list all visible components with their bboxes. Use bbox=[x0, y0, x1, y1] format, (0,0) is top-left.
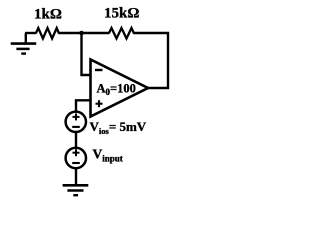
junction node A (inverting input tap) bbox=[79, 31, 84, 36]
wire (non-inverting input) bbox=[76, 100, 91, 112]
wire (Vios to Vinput) bbox=[75, 132, 77, 149]
polarity mark - bbox=[72, 162, 80, 164]
polarity mark + bbox=[73, 152, 80, 154]
svg-text:1kΩ: 1kΩ bbox=[34, 7, 62, 23]
polarity mark + bbox=[73, 116, 80, 118]
op-amp U1 bbox=[91, 60, 149, 117]
ground (left, at 1k ohm input) bbox=[11, 33, 37, 54]
svg-text:15kΩ: 15kΩ bbox=[104, 6, 139, 22]
polarity mark - bbox=[72, 126, 80, 128]
resistor 1kOhm bbox=[36, 28, 59, 39]
wire (feedback / output) bbox=[134, 33, 169, 88]
voltage source Vios bbox=[66, 112, 86, 132]
resistor 15kOhm (feedback) bbox=[109, 28, 134, 39]
wire (1k ohm to 15k ohm, through node A) bbox=[59, 32, 110, 34]
wire (inverting input) bbox=[82, 33, 91, 75]
svg-text:A0=100: A0=100 bbox=[97, 82, 136, 98]
wire (ground to 1k ohm) bbox=[25, 32, 37, 34]
source circle bbox=[66, 112, 86, 132]
non-inverting input marker (+) bbox=[96, 103, 103, 105]
ground (bottom, below Vinput) bbox=[63, 185, 89, 195]
op-amp triangle body bbox=[91, 60, 149, 117]
inverting input marker (-) bbox=[95, 69, 103, 71]
voltage source Vinput bbox=[66, 148, 86, 168]
source circle bbox=[66, 148, 86, 168]
wire (Vinput to ground) bbox=[75, 168, 77, 185]
svg-text:Vios= 5mV: Vios= 5mV bbox=[90, 119, 147, 136]
